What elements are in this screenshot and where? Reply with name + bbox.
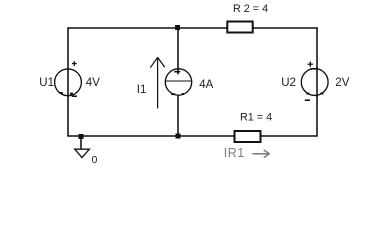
svg-text:U2: U2 — [281, 77, 296, 89]
voltage source U2 (2V) circle — [301, 69, 328, 96]
svg-text:4V: 4V — [86, 77, 100, 89]
wire through U2 — [316, 67, 318, 97]
wire bottom net: R1 right to bottom-right corner — [262, 135, 318, 137]
U1 circle bottom edge dots — [60, 92, 73, 95]
svg-text:U1: U1 — [39, 77, 54, 89]
wire top net: segment R2 right to top-right corner — [254, 27, 318, 29]
U2 circle edge dots — [306, 68, 323, 95]
resistor R1 body — [235, 131, 261, 142]
U1 polarity - mark — [72, 95, 77, 97]
wire right branch: U2 vertical x=317 — [316, 27, 318, 136]
I1 circle bottom edge dot — [182, 93, 184, 95]
U2 polarity - mark — [305, 99, 310, 101]
current direction arrow for IR1 — [253, 150, 270, 158]
current source I1 (4A) circle — [165, 69, 191, 95]
junction: top node at I1 branch — [175, 25, 180, 30]
I1 internal diameter chord — [166, 80, 192, 82]
ground symbol (node 0) — [75, 149, 90, 157]
svg-text:I1: I1 — [137, 84, 147, 96]
svg-text:IR1: IR1 — [224, 146, 245, 160]
wire mid branch upper segment into I1 top — [177, 27, 179, 74]
wire mid branch lower segment from I1 bottom — [177, 95, 179, 136]
I1 current direction arrow — [150, 57, 164, 108]
voltage source U1 (4V) circle — [55, 69, 82, 96]
I1 internal - mark — [171, 93, 175, 95]
junction: bottom node at I1 branch — [176, 134, 181, 139]
svg-text:R 2 = 4: R 2 = 4 — [233, 3, 268, 15]
svg-text:2V: 2V — [335, 77, 349, 89]
ground stem wire — [80, 137, 82, 149]
junction: bottom node at ground tap — [79, 134, 84, 139]
svg-text:0: 0 — [92, 154, 98, 166]
wire bottom net: from left corner to R1 — [67, 135, 233, 137]
wire through U1 — [67, 68, 69, 97]
U1 polarity + mark — [72, 61, 77, 66]
svg-text:4A: 4A — [199, 79, 213, 91]
wire top net: left segment (node between U1+ and R2) — [68, 27, 227, 29]
U2 polarity + mark — [308, 62, 313, 67]
svg-text:R1 = 4: R1 = 4 — [240, 112, 272, 124]
resistor R2 body — [227, 22, 252, 33]
I1 internal + terminal bar — [174, 71, 180, 73]
wire left branch: U1 vertical x=68 — [67, 27, 69, 136]
